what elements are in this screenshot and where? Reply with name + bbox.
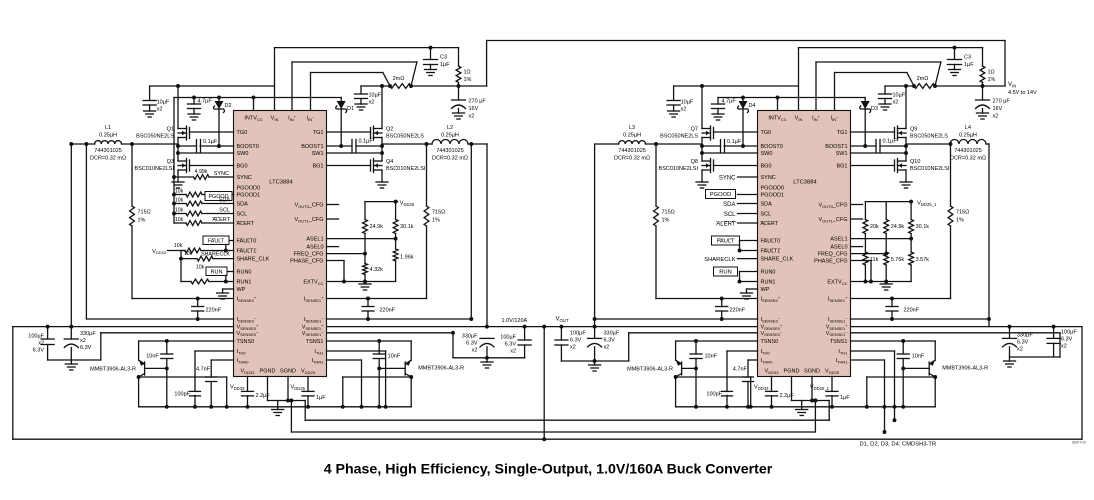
svg-text:x2: x2 (993, 114, 999, 120)
svg-text:2mΩ: 2mΩ (917, 76, 929, 82)
svg-text:4 Phase, High Efficiency, Sing: 4 Phase, High Efficiency, Single-Output,… (324, 461, 773, 477)
svg-text:BSC010NE2LSI: BSC010NE2LSI (659, 166, 699, 172)
svg-text:x2: x2 (570, 345, 576, 351)
svg-text:1%: 1% (464, 77, 472, 83)
svg-text:10µF: 10µF (893, 93, 906, 99)
svg-text:0.1µF: 0.1µF (359, 139, 374, 145)
svg-text:L2: L2 (447, 125, 453, 131)
svg-text:EXTVCC: EXTVCC (827, 280, 847, 286)
svg-text:10µF: 10µF (681, 100, 694, 106)
svg-text:MMBT3906-AL3-R: MMBT3906-AL3-R (627, 367, 673, 373)
svg-text:VOUT1_CFG: VOUT1_CFG (294, 217, 323, 223)
svg-text:744301025: 744301025 (618, 148, 646, 154)
svg-text:3889 F20: 3889 F20 (1072, 441, 1086, 445)
svg-text:1%: 1% (956, 218, 964, 224)
svg-text:VIN: VIN (1008, 82, 1016, 89)
svg-text:4.7µF: 4.7µF (722, 99, 737, 105)
svg-text:VDD33: VDD33 (152, 249, 167, 255)
svg-text:6.3V: 6.3V (604, 338, 616, 344)
svg-text:VDD25: VDD25 (301, 369, 316, 375)
svg-text:220nF: 220nF (380, 308, 396, 314)
svg-text:0.25µH: 0.25µH (441, 133, 459, 139)
svg-text:TG0: TG0 (761, 130, 772, 136)
svg-text:x2: x2 (604, 345, 610, 351)
svg-text:1%: 1% (432, 218, 440, 224)
svg-text:715Ω: 715Ω (956, 210, 969, 216)
svg-text:L3: L3 (629, 125, 635, 131)
svg-text:1µF: 1µF (440, 62, 450, 68)
svg-text:PHASE_CFG: PHASE_CFG (814, 259, 847, 265)
svg-text:L1: L1 (105, 125, 111, 131)
svg-text:C3: C3 (964, 55, 971, 61)
svg-text:100µF: 100µF (28, 334, 44, 340)
svg-text:D4: D4 (749, 103, 756, 109)
svg-text:10k: 10k (175, 188, 184, 194)
svg-text:BG0: BG0 (761, 164, 772, 170)
svg-text:TG0: TG0 (237, 130, 248, 136)
svg-text:715Ω: 715Ω (138, 210, 151, 216)
svg-text:PGOOD0: PGOOD0 (761, 186, 785, 192)
svg-text:BSC050NE2LS: BSC050NE2LS (910, 134, 948, 140)
svg-text:Q1: Q1 (167, 127, 174, 133)
svg-text:220nF: 220nF (206, 308, 222, 314)
svg-text:DCR=0.32 mΩ: DCR=0.32 mΩ (950, 156, 986, 162)
svg-text:24.9k: 24.9k (370, 224, 384, 230)
svg-text:SHARECLK: SHARECLK (704, 257, 735, 263)
svg-text:FAULT0: FAULT0 (237, 239, 257, 245)
svg-text:DCR=0.32 mΩ: DCR=0.32 mΩ (432, 156, 468, 162)
svg-text:SYNC: SYNC (719, 176, 736, 182)
svg-text:270 µF: 270 µF (469, 99, 487, 105)
svg-text:BSC050NE2LS: BSC050NE2LS (136, 134, 174, 140)
svg-text:VDD25: VDD25 (400, 200, 415, 206)
svg-text:24.9k: 24.9k (891, 224, 905, 230)
svg-text:BSC010NE2LSI: BSC010NE2LSI (386, 166, 426, 172)
svg-text:4.99k: 4.99k (195, 169, 208, 175)
svg-text:SW1: SW1 (312, 151, 324, 157)
svg-text:10k: 10k (175, 217, 184, 223)
svg-text:VDD25_1: VDD25_1 (917, 200, 937, 206)
svg-text:ITHR1: ITHR1 (312, 358, 325, 364)
svg-text:4.7µF: 4.7µF (198, 99, 213, 105)
svg-text:x2: x2 (369, 100, 375, 106)
svg-text:TSNS0: TSNS0 (761, 339, 779, 345)
svg-text:4.5V to 14V: 4.5V to 14V (1008, 90, 1037, 96)
svg-text:10k: 10k (184, 251, 193, 257)
svg-text:SGND: SGND (280, 369, 296, 375)
svg-text:x2: x2 (80, 338, 86, 344)
svg-text:10nF: 10nF (146, 354, 159, 360)
svg-text:6.3V: 6.3V (505, 342, 517, 348)
svg-text:D1, D2, D3, D4: CMDSH3-TR: D1, D2, D3, D4: CMDSH3-TR (860, 442, 937, 448)
svg-text:100µF: 100µF (500, 335, 516, 341)
svg-text:RUN: RUN (211, 269, 223, 275)
svg-text:1.0V/120A: 1.0V/120A (502, 318, 528, 324)
svg-text:FAULT: FAULT (208, 238, 225, 244)
svg-text:PGOOD1: PGOOD1 (237, 193, 261, 199)
svg-text:ITH1: ITH1 (838, 349, 848, 355)
svg-text:SHARE_CLK: SHARE_CLK (761, 257, 794, 263)
svg-text:EXTVCC: EXTVCC (303, 280, 323, 286)
svg-text:LTC3884: LTC3884 (269, 180, 293, 186)
svg-text:x2: x2 (1061, 344, 1067, 350)
svg-text:SDA: SDA (723, 202, 735, 208)
svg-text:1.96k: 1.96k (400, 255, 414, 261)
svg-text:SCL: SCL (237, 212, 248, 218)
svg-text:6.3V: 6.3V (80, 345, 92, 351)
svg-text:MMBT3906-AL3-R: MMBT3906-AL3-R (418, 366, 464, 372)
svg-text:ITH1: ITH1 (314, 349, 324, 355)
svg-text:x2: x2 (1017, 347, 1023, 353)
svg-text:ALERT: ALERT (716, 222, 736, 228)
svg-text:D2: D2 (225, 103, 232, 109)
svg-text:WP: WP (761, 287, 770, 293)
svg-text:BOOST1: BOOST1 (301, 144, 323, 150)
svg-text:330µF: 330µF (604, 331, 620, 337)
svg-text:100pF: 100pF (706, 392, 722, 398)
svg-text:20k: 20k (870, 224, 879, 230)
svg-text:ASEL1: ASEL1 (830, 237, 847, 243)
svg-text:100µF: 100µF (570, 331, 586, 337)
svg-text:30.1k: 30.1k (400, 224, 414, 230)
svg-text:BSC050NE2LS: BSC050NE2LS (386, 134, 424, 140)
svg-text:VOUT: VOUT (556, 316, 569, 323)
svg-text:5.76k: 5.76k (891, 257, 905, 263)
svg-text:1µF: 1µF (840, 395, 850, 401)
svg-text:x2: x2 (681, 107, 687, 113)
svg-text:744301025: 744301025 (436, 148, 464, 154)
svg-text:Q7: Q7 (691, 127, 698, 133)
svg-text:6.3V: 6.3V (1017, 340, 1029, 346)
svg-text:TG1: TG1 (313, 130, 324, 136)
svg-text:10nF: 10nF (912, 354, 925, 360)
svg-text:ALERT: ALERT (761, 221, 779, 227)
svg-text:330µF: 330µF (80, 331, 96, 337)
svg-text:VOUT0_CFG: VOUT0_CFG (294, 203, 323, 209)
svg-text:1µF: 1µF (316, 395, 326, 401)
svg-text:10µF: 10µF (369, 93, 382, 99)
svg-text:ITHR0: ITHR0 (761, 358, 774, 364)
svg-text:INTVCC: INTVCC (244, 116, 262, 122)
svg-text:x2: x2 (510, 349, 516, 355)
svg-text:WP: WP (237, 287, 246, 293)
svg-text:SW1: SW1 (836, 151, 848, 157)
svg-text:VIN: VIN (795, 116, 803, 122)
svg-text:744301025: 744301025 (94, 148, 122, 154)
svg-text:0.1µF: 0.1µF (203, 139, 218, 145)
svg-text:ITH0: ITH0 (761, 349, 771, 355)
svg-text:VOUT0_CFG: VOUT0_CFG (818, 203, 847, 209)
svg-text:PGOOD1: PGOOD1 (761, 193, 785, 199)
svg-text:SYNC: SYNC (761, 175, 776, 181)
svg-text:715Ω: 715Ω (432, 210, 445, 216)
svg-text:6.3V: 6.3V (33, 348, 45, 354)
svg-text:MMBT3906-AL3-R: MMBT3906-AL3-R (90, 367, 136, 373)
svg-text:Q2: Q2 (386, 127, 393, 133)
svg-text:SGND: SGND (804, 369, 820, 375)
svg-text:VDD33: VDD33 (754, 384, 769, 390)
svg-text:FAULT1: FAULT1 (761, 249, 781, 255)
svg-text:ASEL1: ASEL1 (306, 237, 323, 243)
svg-text:0.25µH: 0.25µH (623, 133, 641, 139)
svg-text:x2: x2 (38, 341, 44, 347)
svg-text:FAULT: FAULT (717, 239, 735, 245)
svg-text:1%: 1% (988, 77, 996, 83)
svg-text:ALERT: ALERT (212, 217, 230, 223)
svg-text:PGND: PGND (784, 369, 800, 375)
svg-text:PGOOD: PGOOD (710, 192, 732, 198)
svg-text:x2: x2 (469, 114, 475, 120)
svg-text:10nF: 10nF (388, 354, 401, 360)
svg-text:RUN0: RUN0 (761, 270, 776, 276)
svg-text:SDA: SDA (237, 202, 249, 208)
svg-text:VDD33: VDD33 (765, 369, 780, 375)
svg-text:TSNS1: TSNS1 (306, 339, 324, 345)
svg-text:DCR=0.32 mΩ: DCR=0.32 mΩ (614, 156, 650, 162)
svg-text:Q9: Q9 (910, 127, 917, 133)
svg-text:x2: x2 (893, 100, 899, 106)
svg-text:VIN: VIN (271, 116, 279, 122)
svg-text:RUN1: RUN1 (761, 280, 776, 286)
svg-text:ITHR0: ITHR0 (237, 358, 250, 364)
svg-text:SHARECLK: SHARECLK (201, 251, 230, 257)
svg-text:BG1: BG1 (312, 164, 323, 170)
svg-text:1%: 1% (662, 218, 670, 224)
svg-text:x2: x2 (472, 348, 478, 354)
svg-text:FAULT0: FAULT0 (761, 239, 781, 245)
svg-text:744301025: 744301025 (954, 148, 982, 154)
svg-text:SDA: SDA (219, 198, 231, 204)
svg-text:FREQ_CFG: FREQ_CFG (818, 252, 848, 258)
svg-text:10µF: 10µF (157, 100, 170, 106)
svg-text:100µF: 100µF (1061, 330, 1077, 336)
svg-text:0.25µH: 0.25µH (99, 133, 117, 139)
svg-text:VDD25: VDD25 (290, 384, 305, 390)
svg-text:x2: x2 (157, 107, 163, 113)
svg-text:3.57k: 3.57k (916, 257, 930, 263)
svg-text:16V: 16V (993, 106, 1003, 112)
svg-text:6.3V: 6.3V (570, 338, 582, 344)
svg-text:ITH0: ITH0 (237, 349, 247, 355)
svg-text:Q10: Q10 (910, 159, 920, 165)
svg-text:4.32k: 4.32k (370, 267, 384, 273)
svg-text:VDD33: VDD33 (230, 384, 245, 390)
svg-text:220nF: 220nF (730, 308, 746, 314)
svg-text:FAULT1: FAULT1 (237, 249, 257, 255)
svg-text:ASEL0: ASEL0 (306, 245, 323, 251)
svg-text:6.3V: 6.3V (1061, 337, 1073, 343)
svg-text:VOUT1_CFG: VOUT1_CFG (818, 217, 847, 223)
svg-text:BSC010NE2LSI: BSC010NE2LSI (910, 166, 950, 172)
svg-text:SCL: SCL (219, 208, 230, 214)
svg-text:BSC010NE2LSI: BSC010NE2LSI (135, 166, 175, 172)
svg-text:30.1k: 30.1k (916, 224, 930, 230)
svg-text:1Ω: 1Ω (464, 70, 471, 76)
svg-text:0.1µF: 0.1µF (727, 139, 742, 145)
svg-text:C3: C3 (440, 55, 447, 61)
svg-text:VDD25_1: VDD25_1 (810, 384, 830, 390)
svg-text:SHARE_CLK: SHARE_CLK (237, 257, 270, 263)
svg-text:PGOOD0: PGOOD0 (237, 186, 261, 192)
svg-text:D1: D1 (347, 106, 354, 112)
svg-text:715Ω: 715Ω (662, 210, 675, 216)
svg-text:10k: 10k (175, 197, 184, 203)
svg-text:INTVCC: INTVCC (768, 116, 786, 122)
svg-text:220nF: 220nF (904, 308, 920, 314)
svg-text:SYNC: SYNC (214, 171, 229, 177)
svg-text:Q4: Q4 (386, 159, 393, 165)
svg-text:DCR=0.32 mΩ: DCR=0.32 mΩ (90, 156, 126, 162)
svg-text:RUN: RUN (719, 270, 732, 276)
svg-text:SCL: SCL (761, 212, 772, 218)
svg-text:VDD25: VDD25 (825, 369, 840, 375)
svg-text:1%: 1% (138, 218, 146, 224)
svg-text:FREQ_CFG: FREQ_CFG (294, 252, 324, 258)
svg-text:LTC3884: LTC3884 (793, 180, 817, 186)
svg-text:6.3V: 6.3V (466, 341, 478, 347)
svg-text:10k: 10k (175, 207, 184, 213)
svg-text:Q8: Q8 (691, 159, 698, 165)
svg-text:SW0: SW0 (761, 151, 773, 157)
svg-text:330µF: 330µF (1017, 333, 1033, 339)
svg-text:RUN0: RUN0 (237, 270, 252, 276)
svg-text:D3: D3 (871, 106, 878, 112)
svg-text:SDA: SDA (761, 202, 773, 208)
svg-text:0.25µH: 0.25µH (959, 133, 977, 139)
svg-text:270 µF: 270 µF (993, 99, 1011, 105)
svg-text:4.7nF: 4.7nF (196, 367, 211, 373)
svg-text:L4: L4 (965, 125, 971, 131)
svg-text:Q3: Q3 (167, 159, 174, 165)
svg-text:100pF: 100pF (174, 392, 190, 398)
svg-text:PHASE_CFG: PHASE_CFG (290, 259, 323, 265)
svg-text:10nF: 10nF (705, 354, 718, 360)
svg-text:10k: 10k (196, 264, 205, 270)
svg-text:330µF: 330µF (462, 334, 478, 340)
svg-text:16V: 16V (469, 106, 479, 112)
svg-text:BOOST1: BOOST1 (825, 144, 847, 150)
svg-text:BG1: BG1 (836, 164, 847, 170)
svg-text:VDD33: VDD33 (241, 369, 256, 375)
svg-text:MMBT3906-AL3-R: MMBT3906-AL3-R (942, 366, 988, 372)
svg-text:ASEL0: ASEL0 (830, 245, 847, 251)
svg-text:PGND: PGND (260, 369, 276, 375)
svg-text:0.1µF: 0.1µF (883, 139, 898, 145)
svg-text:4.7nF: 4.7nF (733, 367, 748, 373)
svg-text:1µF: 1µF (964, 62, 974, 68)
svg-text:10k: 10k (174, 243, 183, 249)
svg-text:BSC050NE2LS: BSC050NE2LS (660, 134, 698, 140)
svg-text:2mΩ: 2mΩ (393, 76, 405, 82)
svg-text:RUN1: RUN1 (237, 280, 252, 286)
svg-text:TG1: TG1 (837, 130, 848, 136)
svg-text:BOOST0: BOOST0 (761, 144, 783, 150)
svg-text:BOOST0: BOOST0 (237, 144, 259, 150)
svg-text:SW0: SW0 (237, 151, 249, 157)
svg-text:TSNS0: TSNS0 (237, 339, 255, 345)
svg-text:BG0: BG0 (237, 164, 248, 170)
svg-text:TSNS1: TSNS1 (830, 339, 848, 345)
svg-text:SCL: SCL (724, 212, 736, 218)
svg-text:SYNC: SYNC (237, 175, 252, 181)
svg-text:ALERT: ALERT (237, 221, 255, 227)
svg-text:1Ω: 1Ω (988, 70, 995, 76)
svg-text:ITHR1: ITHR1 (836, 358, 849, 364)
